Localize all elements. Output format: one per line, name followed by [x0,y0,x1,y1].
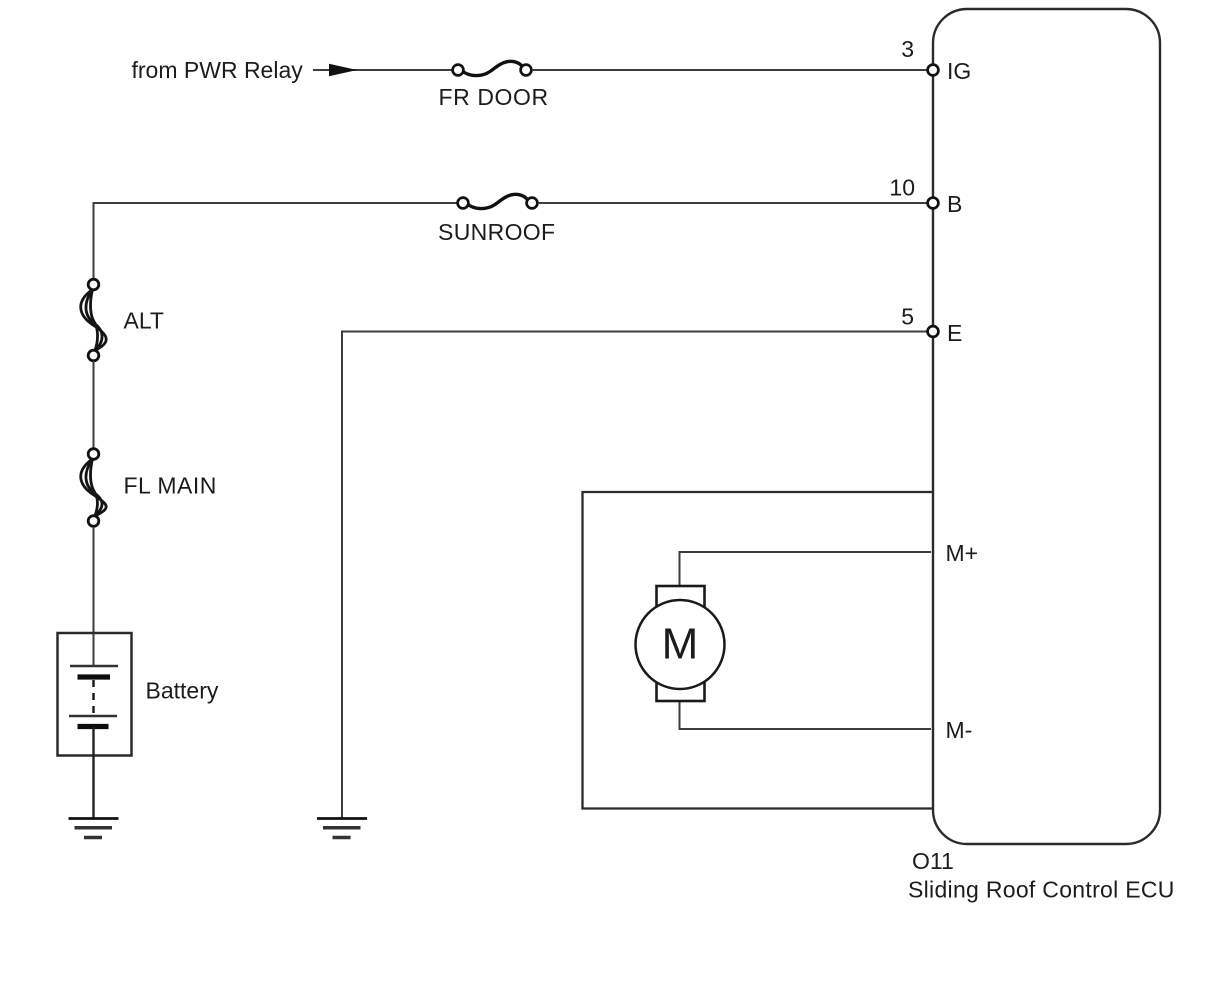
svg-text:ALT: ALT [124,308,164,334]
svg-text:5: 5 [901,304,914,330]
svg-text:FR DOOR: FR DOOR [439,84,549,110]
pin 5 E [901,304,962,347]
svg-text:M+: M+ [946,540,979,566]
svg-text:E: E [947,320,962,346]
svg-text:SUNROOF: SUNROOF [438,219,555,245]
svg-text:O11: O11 [912,848,954,874]
fuse SUNROOF [438,194,555,245]
wire: fuse FR DOOR to pin IG [532,69,930,71]
pin 10 B [889,175,962,218]
motor enclosure box [583,492,934,809]
svg-text:10: 10 [889,175,915,201]
wire: PWR relay lead [313,69,452,71]
fuse FR DOOR [439,61,549,110]
pin 3 IG [901,36,971,84]
wire M+ [680,552,932,587]
svg-text:3: 3 [901,36,914,62]
svg-text:Battery: Battery [146,678,219,704]
ECU O11 box [933,9,1160,844]
wire M- [680,700,932,729]
ground: battery ground [69,819,119,838]
wire: FL MAIN to battery [93,527,95,666]
svg-text:from PWR Relay: from PWR Relay [132,57,304,83]
svg-text:M-: M- [946,717,973,743]
svg-text:IG: IG [947,58,971,84]
wire: battery branch to fuse SUNROOF [94,202,460,204]
wire: fuse SUNROOF to pin B [538,202,930,204]
motor M (sliding roof motor) [636,586,725,701]
battery [58,633,219,756]
svg-text:Sliding Roof Control ECU: Sliding Roof Control ECU [908,877,1175,903]
arrow: signal direction [329,64,357,77]
wire: pin E to ground (horizontal + vertical) [342,332,930,819]
ground: E ground [317,819,367,838]
svg-text:M: M [662,620,699,669]
wire: ALT to FL MAIN [93,361,95,448]
wire: battery to ground [92,727,94,818]
svg-text:B: B [947,191,962,217]
fusible link FL MAIN [81,449,217,527]
fusible link ALT [81,279,164,361]
svg-text:FL MAIN: FL MAIN [124,473,217,499]
wire: left vertical to ALT [93,202,95,279]
